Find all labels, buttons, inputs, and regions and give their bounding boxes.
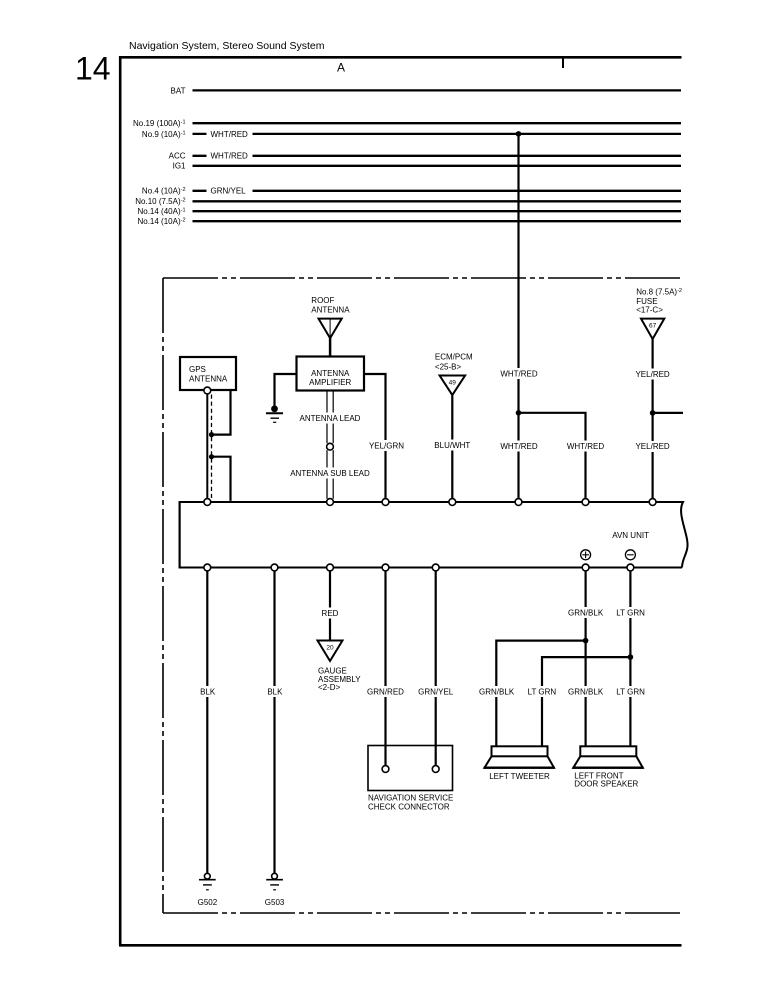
ground G502 (198, 873, 218, 907)
svg-text:ACC: ACC (169, 152, 186, 161)
svg-text:G503: G503 (265, 898, 285, 907)
pin circle AVN bottom BLK G502 (204, 564, 211, 571)
pin circle check connector GRN/YEL (432, 766, 439, 773)
AVN unit box (179, 501, 688, 569)
svg-text:GPS: GPS (189, 365, 206, 374)
wire YEL/GRN from amplifier (364, 374, 386, 499)
wire GRN/RED (384, 571, 386, 766)
label BLK right (266, 686, 283, 697)
pin circle AVN bottom LT GRN (627, 564, 634, 571)
svg-text:67: 67 (649, 323, 657, 330)
svg-text:ECM/PCM: ECM/PCM (435, 353, 473, 362)
GPS antenna box (180, 357, 236, 390)
label GRN/YEL (418, 686, 455, 697)
pin circle AVN top antenna sub lead (327, 499, 334, 506)
roof antenna symbol (319, 319, 342, 357)
pin circle AVN top WHT/RED left (515, 499, 522, 506)
svg-text:WHT/RED: WHT/RED (211, 152, 249, 161)
pin circle AVN bottom BLK G503 (271, 564, 278, 571)
svg-text:BLK: BLK (267, 687, 283, 696)
svg-text:YEL/RED: YEL/RED (635, 442, 669, 451)
connector circle at GPS antenna (204, 387, 211, 394)
junction dot GRN/BLK (583, 638, 589, 644)
junction dot on No.9 line (516, 131, 522, 137)
wire No.9 (10A) WHT/RED (142, 130, 681, 139)
svg-text:G502: G502 (198, 898, 218, 907)
wire No.14 (40A) (137, 207, 681, 216)
pin circle AVN bottom GRN/BLK (582, 564, 589, 571)
minus terminal symbol (625, 550, 635, 560)
wire No.14 (10A) (137, 217, 681, 226)
svg-text:ANTENNA: ANTENNA (189, 374, 228, 383)
wire No.19 (100A) (133, 119, 681, 128)
wire LT GRN branch to tweeter (542, 657, 630, 746)
pin circle AVN bottom GRN/YEL (432, 564, 439, 571)
label YEL/GRN (368, 440, 406, 451)
wire GRN/YEL (435, 571, 437, 766)
label GRN/RED (367, 686, 405, 697)
svg-text:ANTENNA: ANTENNA (311, 305, 350, 314)
svg-text:AMPLIFIER: AMPLIFIER (309, 378, 351, 387)
label BLU/WHT (433, 440, 472, 451)
svg-text:YEL/GRN: YEL/GRN (369, 442, 404, 451)
svg-text:20: 20 (326, 644, 334, 651)
svg-text:LEFT TWEETER: LEFT TWEETER (489, 772, 550, 781)
svg-text:DOOR SPEAKER: DOOR SPEAKER (574, 779, 638, 788)
svg-text:BAT: BAT (171, 86, 186, 95)
svg-text:14: 14 (75, 51, 111, 87)
svg-text:49: 49 (449, 380, 457, 387)
label WHT/RED lower right (566, 441, 606, 452)
svg-text:A: A (337, 61, 345, 75)
wire BAT (171, 86, 681, 95)
wire GRN/BLK branch to tweeter (496, 641, 585, 747)
wire amplifier to ground (275, 374, 297, 406)
connector circle on antenna lead (327, 443, 334, 450)
label YEL/RED lower (634, 441, 671, 452)
svg-text:WHT/RED: WHT/RED (500, 442, 538, 451)
label LT GRN upper (616, 607, 646, 618)
pin circle AVN top YEL/GRN (382, 499, 389, 506)
wire RED to gauge assembly (329, 571, 331, 641)
svg-text:CHECK CONNECTOR: CHECK CONNECTOR (368, 802, 450, 811)
label LT GRN tweeter (527, 686, 557, 697)
connector triangle 20 (gauge assembly) (318, 641, 343, 662)
svg-text:ANTENNA: ANTENNA (311, 369, 350, 378)
wire LT GRN from AVN minus (629, 571, 631, 746)
svg-text:WHT/RED: WHT/RED (500, 369, 538, 378)
wire GPS shield upper drain (213, 391, 231, 435)
connector triangle 67 (fuse) (641, 319, 664, 339)
left tweeter speaker (484, 746, 555, 781)
svg-text:<17-C>: <17-C> (636, 305, 663, 314)
wire BLU/WHT (451, 395, 453, 499)
label ANTENNA LEAD (298, 413, 361, 424)
label BLK left (199, 686, 216, 697)
GPS antenna lead shield (dashed) (211, 395, 213, 499)
label GRN/BLK speaker (568, 686, 605, 697)
fuse No.8 label (636, 287, 682, 314)
svg-text:WHT/RED: WHT/RED (211, 130, 249, 139)
svg-text:Navigation System, Stereo Soun: Navigation System, Stereo Sound System (129, 40, 325, 52)
wire GPS shield lower drain (213, 457, 231, 501)
ground at antenna amplifier (266, 405, 283, 422)
svg-text:GRN/YEL: GRN/YEL (418, 687, 454, 696)
svg-text:ANTENNA LEAD: ANTENNA LEAD (300, 414, 361, 423)
svg-text:GRN/BLK: GRN/BLK (479, 687, 515, 696)
svg-text:GRN/YEL: GRN/YEL (211, 187, 247, 196)
svg-text:No.9 (10A)-1: No.9 (10A)-1 (142, 130, 186, 139)
svg-text:BLU/WHT: BLU/WHT (434, 441, 470, 450)
label GRN/BLK tweeter (478, 686, 515, 697)
svg-text:GRN/RED: GRN/RED (367, 687, 404, 696)
svg-text:No.19 (100A)-1: No.19 (100A)-1 (133, 119, 185, 128)
label ANTENNA SUB LEAD (289, 468, 371, 479)
antenna amplifier U1 box (297, 357, 365, 391)
junction dot shield upper (209, 432, 214, 437)
pin circle AVN top BLU/WHT (449, 499, 456, 506)
svg-text:NAVIGATION SERVICE: NAVIGATION SERVICE (368, 793, 453, 802)
svg-text:LT GRN: LT GRN (528, 687, 557, 696)
wire No.4 (10A) GRN/YEL (142, 187, 681, 196)
svg-text:RED: RED (322, 609, 339, 618)
svg-text:No.8 (7.5A)-2: No.8 (7.5A)-2 (636, 287, 682, 296)
svg-text:LT GRN: LT GRN (616, 687, 645, 696)
svg-text:GRN/BLK: GRN/BLK (568, 608, 604, 617)
junction dot LT GRN (628, 654, 634, 660)
pin circle AVN top WHT/RED right (582, 499, 589, 506)
label LT GRN speaker (616, 686, 646, 697)
svg-text:No.10 (7.5A)-2: No.10 (7.5A)-2 (135, 197, 185, 206)
label GRN/BLK upper (568, 607, 605, 618)
wire WHT/RED branch to second AVN pin (519, 413, 586, 499)
wire GRN/BLK from AVN plus (584, 571, 586, 746)
pin circle AVN bottom RED (327, 564, 334, 571)
plus terminal symbol (581, 550, 591, 560)
ECM/PCM connector label (435, 353, 473, 372)
junction dot YEL/RED (650, 410, 656, 416)
svg-text:IG1: IG1 (173, 162, 186, 171)
wire No.10 (7.5A) (135, 197, 681, 206)
svg-text:<25-B>: <25-B> (435, 362, 462, 371)
pin circle AVN top GPS (204, 499, 211, 506)
junction dot WHT/RED branch (516, 410, 522, 416)
antenna lead (coax) (327, 391, 333, 499)
pin circle AVN bottom GRN/RED (382, 564, 389, 571)
wire YEL/RED branch to right (653, 412, 683, 414)
wire GPS antenna lead center conductor (206, 394, 208, 499)
ROOF ANTENNA label (311, 296, 350, 315)
svg-text:<2-D>: <2-D> (318, 683, 341, 692)
svg-text:WHT/RED: WHT/RED (567, 442, 605, 451)
connector triangle 49 (ECM/PCM) (440, 376, 466, 396)
wire WHT/RED from No.9 fuse line down to AVN unit (517, 134, 519, 499)
label WHT/RED upper (499, 368, 539, 379)
wire ACC WHT/RED (169, 152, 681, 161)
svg-text:No.4 (10A)-2: No.4 (10A)-2 (142, 187, 186, 196)
junction dot shield lower (209, 454, 214, 459)
left front door speaker (573, 746, 644, 788)
wire BLK to G502 (206, 571, 208, 873)
svg-text:No.14 (40A)-1: No.14 (40A)-1 (137, 207, 185, 216)
svg-text:YEL/RED: YEL/RED (635, 370, 669, 379)
label RED (320, 608, 340, 619)
navigation service check connector box (368, 746, 453, 812)
pin circle AVN top YEL/RED (649, 499, 656, 506)
label YEL/RED upper (634, 369, 671, 380)
ground G503 (265, 873, 285, 907)
svg-text:AVN UNIT: AVN UNIT (612, 531, 649, 540)
svg-text:No.14 (10A)-2: No.14 (10A)-2 (137, 217, 185, 226)
svg-text:GRN/BLK: GRN/BLK (568, 687, 604, 696)
wire BLK to G503 (273, 571, 275, 873)
gauge assembly label (318, 667, 361, 692)
pin circle check connector GRN/RED (382, 766, 389, 773)
svg-text:ANTENNA SUB LEAD: ANTENNA SUB LEAD (290, 469, 370, 478)
svg-text:LT GRN: LT GRN (616, 608, 645, 617)
svg-text:BLK: BLK (200, 687, 216, 696)
label WHT/RED lower left (499, 441, 539, 452)
svg-text:ROOF: ROOF (311, 296, 334, 305)
wire YEL/RED (651, 339, 653, 499)
wire IG1 (173, 162, 681, 171)
